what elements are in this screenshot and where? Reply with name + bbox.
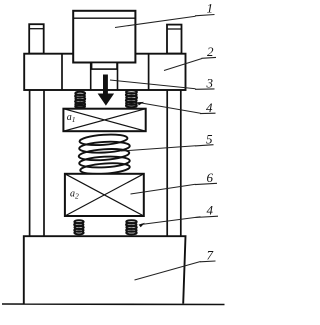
svg-text:3: 3: [206, 75, 214, 90]
crossbeam opening right wall: [117, 62, 119, 90]
right column lower: [167, 90, 181, 236]
ground line: [2, 303, 225, 306]
crossbeam 2: [24, 54, 185, 90]
leader 4 lower with arrowhead: [139, 217, 201, 228]
svg-text:6: 6: [207, 170, 214, 185]
svg-text:2: 2: [207, 44, 214, 59]
leader 1: [115, 16, 196, 27]
arrow 3 (force): [98, 75, 115, 106]
svg-text:7: 7: [207, 248, 214, 263]
label 5: [195, 132, 214, 147]
left column upper with cap: [29, 24, 44, 54]
leader 5: [121, 146, 196, 151]
upper left spring 4: [75, 92, 85, 108]
mass a1 box: [63, 109, 145, 132]
label 6: [195, 170, 217, 185]
crossbeam left division: [61, 54, 63, 90]
right column upper with cap: [167, 25, 182, 54]
svg-text:4: 4: [206, 100, 213, 115]
label 3: [195, 75, 215, 90]
leader 6: [131, 184, 196, 194]
lower left spring 4: [74, 220, 83, 234]
lower right spring 4: [126, 220, 137, 234]
label 1: [195, 1, 215, 16]
crossbeam opening left wall: [90, 62, 92, 90]
crossbeam right division: [148, 54, 150, 90]
base 7: [24, 236, 186, 303]
coil spring 5: [78, 133, 130, 175]
upper right spring 4: [126, 90, 137, 107]
leader 4 upper with arrowhead: [138, 102, 201, 113]
svg-text:4: 4: [207, 203, 214, 218]
leader 7: [135, 262, 201, 281]
leader 2: [164, 59, 202, 71]
label 7: [200, 248, 216, 263]
leader 3: [110, 80, 196, 89]
label 4 upper: [200, 100, 216, 115]
label 2: [202, 44, 217, 59]
block 1 (top mass): [73, 11, 135, 63]
svg-text:1: 1: [207, 1, 214, 16]
left column lower: [30, 90, 44, 236]
tab under block 1: [92, 63, 117, 70]
label 4 lower: [195, 203, 218, 218]
mass a2 box: [65, 174, 144, 216]
